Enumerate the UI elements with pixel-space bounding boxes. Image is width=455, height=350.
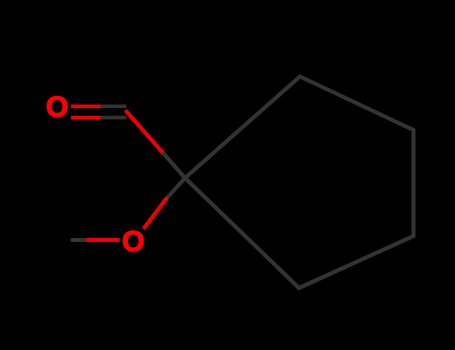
aldehyde C=O double bond: upper line, red half near O [71,105,101,109]
ring bond C2-C3 (upper-left edge of cyclopentane) [185,77,300,179]
ring bond C3-C4 (top-right edge) [300,77,414,131]
bond C1-C2: dark lower part [164,154,185,178]
aldehyde C=O double bond: lower line, dark half near C1 [101,116,127,120]
svg-text:O: O [122,226,145,258]
ring bond C6-C2 (bottom-left edge) [185,178,299,288]
bond C2-O(methoxy): dark part near C2 [166,178,185,199]
svg-text:O: O [46,92,69,124]
ring bond C5-C6 (bottom-right edge) [299,236,414,288]
bond C1-C2: red upper part [127,112,165,155]
aldehyde C=O double bond: lower line, red half near O [71,116,101,120]
bond C2-O(methoxy): red part near O [145,199,167,228]
bond O(methoxy)-CH3: dark part near CH3 [71,238,87,242]
bond O(methoxy)-CH3: red part near O [86,238,119,242]
aldehyde C=O double bond: upper line, dark half near C1 [101,105,127,109]
ring bond C4-C5 (right vertical edge) [412,130,416,236]
